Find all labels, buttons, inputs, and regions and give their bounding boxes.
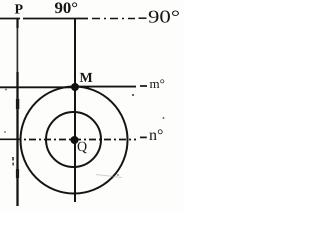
svg-text:P: P — [15, 3, 24, 18]
svg-text:n°: n° — [149, 127, 163, 144]
svg-text:90°: 90° — [55, 0, 79, 17]
svg-text:M: M — [80, 71, 93, 86]
svg-text:m°: m° — [150, 76, 165, 91]
svg-text:Q: Q — [77, 140, 87, 155]
svg-text:90°: 90° — [148, 7, 180, 27]
